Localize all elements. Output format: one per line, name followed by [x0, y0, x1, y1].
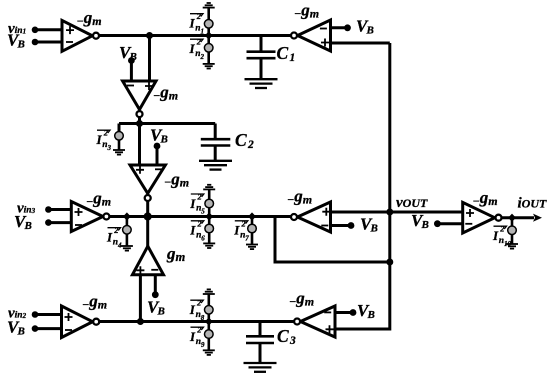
svg-text:9: 9	[201, 341, 205, 349]
svg-text:VB: VB	[356, 17, 374, 37]
svg-text:6: 6	[201, 234, 205, 242]
svg-text:8: 8	[201, 314, 205, 322]
svg-text:VB: VB	[150, 126, 168, 146]
svg-text:C2: C2	[235, 130, 254, 151]
svg-text:7: 7	[245, 234, 249, 242]
svg-text:3: 3	[107, 144, 112, 152]
svg-text:2: 2	[200, 53, 205, 61]
svg-text:−gm: −gm	[77, 8, 102, 28]
svg-text:−gm: −gm	[287, 187, 312, 207]
svg-text:VB: VB	[360, 215, 378, 235]
svg-text:−gm: −gm	[86, 189, 111, 209]
svg-text:−gm: −gm	[473, 188, 498, 208]
svg-text:−gm: −gm	[153, 83, 178, 103]
svg-text:−gm: −gm	[164, 169, 189, 189]
svg-text:−gm: −gm	[294, 1, 319, 21]
svg-text:C3: C3	[277, 326, 296, 347]
svg-text:VB: VB	[119, 43, 137, 63]
svg-text:VB: VB	[411, 211, 429, 231]
svg-text:iOUT: iOUT	[518, 196, 548, 212]
svg-text:−gm: −gm	[82, 292, 107, 312]
svg-text:VB: VB	[147, 298, 165, 318]
svg-text:gm: gm	[166, 244, 186, 264]
svg-text:10: 10	[504, 240, 512, 248]
svg-text:4: 4	[117, 241, 122, 249]
svg-text:1: 1	[201, 27, 205, 35]
svg-text:5: 5	[201, 208, 205, 216]
svg-text:C1: C1	[277, 43, 296, 64]
svg-text:vOUT: vOUT	[396, 195, 428, 211]
svg-text:VB: VB	[357, 301, 375, 321]
svg-text:−gm: −gm	[289, 289, 314, 309]
